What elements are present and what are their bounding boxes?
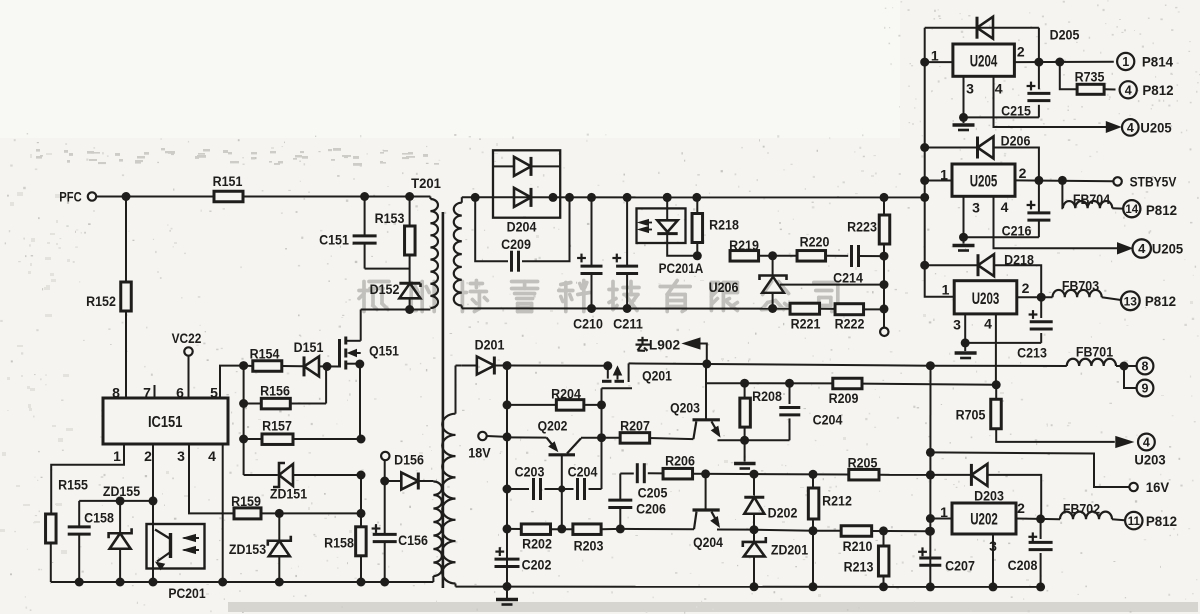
svg-text:D206: D206	[1001, 134, 1031, 149]
svg-text:8: 8	[112, 385, 120, 401]
svg-text:C204: C204	[813, 413, 843, 428]
svg-text:C213: C213	[1017, 346, 1047, 361]
svg-text:ZD153: ZD153	[229, 542, 267, 557]
svg-text:FB702: FB702	[1063, 502, 1100, 517]
svg-text:R220: R220	[800, 235, 830, 250]
svg-text:R735: R735	[1075, 70, 1105, 85]
svg-text:4: 4	[1125, 83, 1132, 97]
svg-text:R210: R210	[843, 539, 873, 554]
svg-text:U205: U205	[1152, 241, 1183, 257]
svg-text:11: 11	[1128, 516, 1141, 528]
svg-text:Q151: Q151	[369, 344, 399, 359]
svg-text:4: 4	[995, 81, 1003, 97]
svg-text:4: 4	[1127, 121, 1134, 135]
svg-text:U204: U204	[970, 53, 998, 71]
svg-text:6: 6	[176, 385, 184, 401]
svg-text:U203: U203	[972, 290, 1000, 308]
svg-text:R213: R213	[844, 560, 874, 575]
svg-text:C214: C214	[833, 271, 863, 286]
svg-text:U203: U203	[1134, 452, 1165, 468]
svg-text:P812: P812	[1146, 513, 1177, 529]
svg-text:Q202: Q202	[538, 419, 568, 434]
svg-text:R221: R221	[791, 317, 821, 332]
svg-text:P812: P812	[1145, 293, 1176, 309]
svg-text:D151: D151	[294, 340, 324, 355]
svg-text:R705: R705	[956, 408, 986, 423]
svg-text:16V: 16V	[1146, 479, 1170, 495]
svg-text:P814: P814	[1142, 54, 1173, 70]
svg-text:R152: R152	[86, 294, 116, 309]
svg-text:R157: R157	[262, 419, 292, 434]
svg-text:13: 13	[1124, 294, 1138, 308]
svg-text:C151: C151	[319, 233, 349, 248]
svg-text:3: 3	[972, 200, 980, 216]
svg-text:7: 7	[143, 385, 151, 401]
svg-text:3: 3	[989, 538, 997, 554]
svg-text:C216: C216	[1002, 224, 1032, 239]
svg-text:R151: R151	[213, 174, 243, 189]
svg-text:C210: C210	[573, 317, 603, 332]
svg-text:R209: R209	[829, 391, 859, 406]
svg-text:U205: U205	[1140, 120, 1171, 136]
svg-text:FB701: FB701	[1076, 345, 1114, 360]
svg-text:P812: P812	[1146, 202, 1177, 218]
svg-text:4: 4	[984, 316, 992, 332]
svg-text:C202: C202	[522, 558, 552, 573]
svg-text:U205: U205	[970, 173, 998, 191]
svg-text:R222: R222	[835, 317, 865, 332]
svg-text:R202: R202	[522, 537, 552, 552]
svg-text:R207: R207	[620, 419, 650, 434]
svg-text:R156: R156	[260, 384, 290, 399]
svg-text:14: 14	[1125, 204, 1138, 216]
svg-text:PC201: PC201	[168, 586, 206, 601]
svg-text:R154: R154	[250, 347, 280, 362]
svg-text:PFC: PFC	[59, 190, 82, 205]
svg-text:2: 2	[1017, 44, 1025, 60]
svg-text:Q201: Q201	[642, 369, 672, 384]
svg-text:D204: D204	[507, 220, 537, 235]
svg-text:C204: C204	[568, 465, 598, 480]
svg-text:R155: R155	[58, 478, 88, 493]
svg-text:L902: L902	[649, 336, 680, 352]
svg-text:STBY5V: STBY5V	[1130, 174, 1177, 190]
svg-text:D203: D203	[974, 489, 1004, 504]
svg-text:D201: D201	[475, 338, 505, 353]
svg-text:4: 4	[1001, 199, 1009, 215]
svg-text:D152: D152	[370, 282, 400, 297]
svg-text:FB704: FB704	[1073, 192, 1111, 207]
svg-text:C156: C156	[398, 533, 428, 548]
svg-text:D202: D202	[768, 506, 798, 521]
svg-text:C205: C205	[638, 486, 668, 501]
svg-text:R159: R159	[231, 494, 261, 509]
svg-text:U206: U206	[709, 280, 739, 295]
svg-text:R153: R153	[375, 211, 405, 226]
svg-text:2: 2	[1019, 165, 1027, 181]
svg-text:R218: R218	[709, 218, 739, 233]
svg-text:ZD151: ZD151	[270, 487, 308, 502]
svg-text:U202: U202	[970, 511, 998, 529]
svg-text:D205: D205	[1050, 28, 1080, 43]
svg-text:C207: C207	[945, 559, 975, 574]
svg-text:1: 1	[942, 282, 950, 298]
svg-text:2: 2	[144, 448, 152, 464]
svg-text:R204: R204	[551, 387, 581, 402]
svg-text:D156: D156	[394, 453, 424, 468]
svg-text:4: 4	[1143, 435, 1150, 449]
svg-text:1: 1	[113, 448, 121, 464]
svg-text:3: 3	[966, 81, 974, 97]
svg-text:4: 4	[208, 448, 216, 464]
svg-text:8: 8	[1142, 360, 1149, 374]
svg-text:T201: T201	[411, 176, 441, 191]
svg-text:3: 3	[177, 448, 185, 464]
svg-text:3: 3	[953, 316, 961, 332]
svg-text:1: 1	[931, 48, 939, 64]
svg-text:C206: C206	[636, 502, 666, 517]
svg-text:R203: R203	[574, 539, 604, 554]
svg-text:R208: R208	[752, 389, 782, 404]
svg-text:C215: C215	[1001, 104, 1031, 119]
svg-text:R219: R219	[729, 238, 759, 253]
svg-text:FB703: FB703	[1062, 279, 1100, 294]
svg-text:R205: R205	[848, 456, 878, 471]
svg-text:ZD201: ZD201	[771, 543, 809, 558]
svg-text:5: 5	[210, 385, 218, 401]
svg-text:4: 4	[1138, 241, 1146, 256]
svg-text:C203: C203	[515, 465, 545, 480]
svg-text:1: 1	[940, 167, 948, 183]
svg-text:R206: R206	[665, 454, 695, 469]
svg-text:VC22: VC22	[172, 331, 202, 346]
svg-text:Q204: Q204	[693, 535, 723, 550]
svg-text:C158: C158	[84, 511, 114, 526]
svg-text:1: 1	[940, 504, 948, 520]
svg-text:9: 9	[1142, 382, 1149, 396]
svg-text:C209: C209	[501, 237, 531, 252]
svg-text:Q203: Q203	[670, 401, 700, 416]
svg-text:R158: R158	[324, 536, 354, 551]
svg-text:1: 1	[1122, 55, 1129, 69]
svg-text:PC201A: PC201A	[659, 261, 704, 276]
svg-text:2: 2	[1022, 280, 1030, 296]
svg-text:P812: P812	[1142, 82, 1173, 98]
svg-text:D218: D218	[1004, 253, 1034, 268]
svg-text:C211: C211	[613, 317, 643, 332]
svg-text:R212: R212	[822, 494, 852, 509]
svg-text:ZD155: ZD155	[103, 484, 141, 499]
svg-text:C208: C208	[1008, 558, 1038, 573]
svg-text:2: 2	[1017, 500, 1025, 516]
svg-text:IC151: IC151	[148, 414, 183, 431]
svg-text:R223: R223	[847, 220, 877, 235]
svg-text:18V: 18V	[468, 446, 490, 461]
